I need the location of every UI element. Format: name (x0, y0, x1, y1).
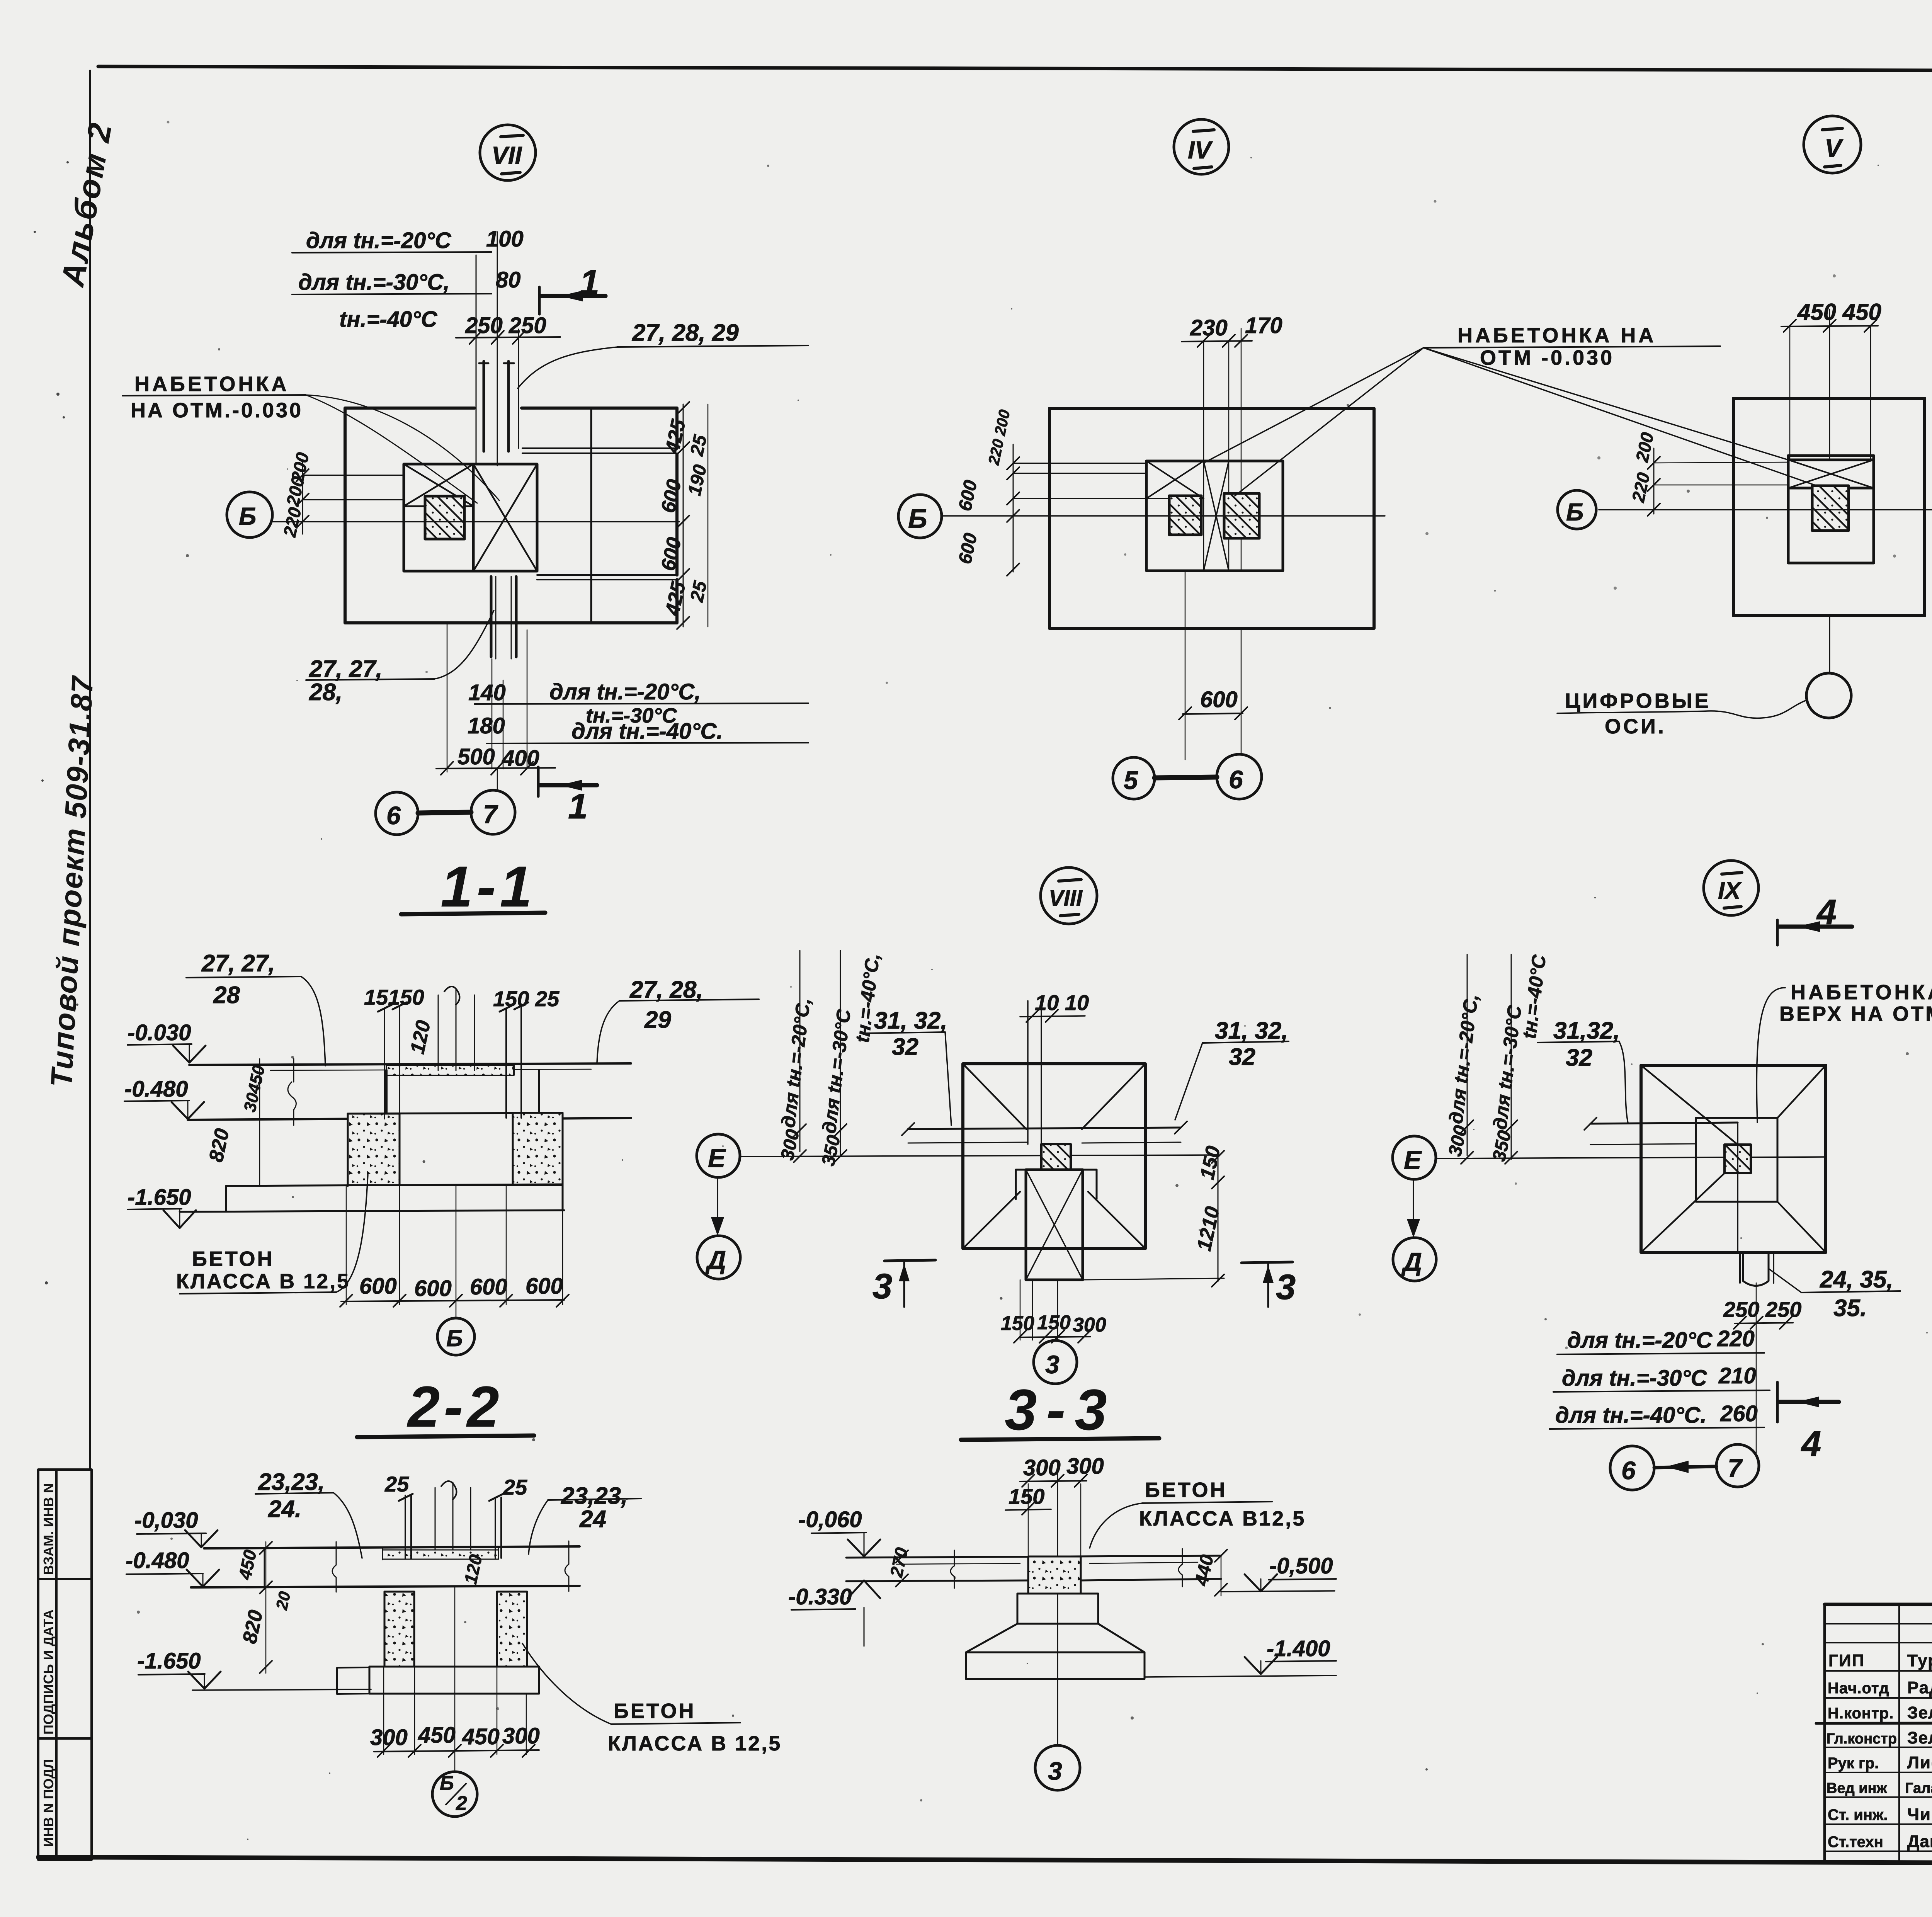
svg-text:Б: Б (239, 502, 256, 530)
signature column verticals (1899, 1604, 1932, 1863)
svg-text:-0.030: -0.030 (128, 1020, 191, 1045)
extension verticals from dims (1028, 1461, 1081, 1556)
pit between piers (414, 1666, 497, 1667)
left footing step outline (385, 1070, 388, 1119)
svg-text:300: 300 (1073, 1314, 1106, 1336)
corner diagonals (1641, 1065, 1826, 1252)
centre column with X brace (473, 464, 537, 571)
anchor bolt pocket (bottom) (491, 577, 516, 657)
anchor bolts above beam left pair (384, 1007, 400, 1119)
section mark 4 (top) (1776, 920, 1779, 945)
centre recess with topping (383, 1546, 498, 1560)
svg-text:-0,030: -0,030 (134, 1508, 198, 1533)
axis bubble Д with arrow (697, 1236, 740, 1279)
box divider vertical (55, 1470, 58, 1860)
svg-text:150: 150 (1001, 1312, 1034, 1335)
svg-text:tн.=-40°С: tн.=-40°С (339, 307, 437, 332)
extension verticals (384, 1587, 526, 1772)
svg-text:Д: Д (705, 1245, 726, 1275)
top beam end bar (1788, 459, 1874, 461)
left border line (89, 71, 91, 1470)
column step outline (1016, 1170, 1097, 1199)
svg-text:210: 210 (1718, 1363, 1756, 1388)
axis bubble 5 (1113, 757, 1155, 799)
svg-text:Нач.отд: Нач.отд (1828, 1680, 1889, 1697)
hatched column pad (1812, 486, 1849, 531)
beam left end vertical (264, 1548, 265, 1587)
svg-text:-0,060: -0,060 (798, 1507, 862, 1532)
svg-text:Чирва: Чирва (1907, 1805, 1932, 1824)
svg-text:31, 32,: 31, 32, (874, 1007, 947, 1034)
cross brace left bay (1146, 461, 1204, 498)
axis bubble 6 (1217, 754, 1262, 799)
svg-text:Зеленский: Зеленский (1907, 1703, 1932, 1722)
svg-text:IX: IX (1718, 878, 1742, 904)
svg-text:для tн.=-30°С: для tн.=-30°С (1562, 1366, 1708, 1391)
axis line Б (942, 515, 1385, 517)
svg-text:для tн.=-20°С,: для tн.=-20°С, (549, 679, 701, 704)
svg-text:6: 6 (386, 801, 401, 830)
line from column bottom to dim (1083, 1278, 1224, 1280)
svg-text:3-3: 3-3 (1005, 1377, 1116, 1442)
svg-text:7: 7 (1728, 1454, 1743, 1482)
svg-text:-0.330: -0.330 (788, 1584, 852, 1609)
left concrete pier (speckled) (348, 1114, 400, 1185)
svg-text:-1.650: -1.650 (128, 1185, 191, 1210)
svg-text:НАБЕТОНКА НА: НАБЕТОНКА НА (1458, 324, 1656, 347)
svg-text:32: 32 (1229, 1044, 1255, 1070)
right step double lines lower (537, 575, 677, 580)
svg-text:БЕТОН: БЕТОН (1145, 1478, 1227, 1502)
beam bottom line (191, 1586, 580, 1587)
svg-text:Данилова: Данилова (1907, 1832, 1932, 1851)
axis connector with arrow (1654, 1466, 1716, 1468)
plan outer square (963, 1064, 1145, 1249)
svg-text:ГИП: ГИП (1828, 1651, 1865, 1670)
thin lines from dim to block (1654, 462, 1788, 485)
svg-text:4: 4 (1801, 1424, 1821, 1464)
svg-text:Н.контр.: Н.контр. (1828, 1705, 1894, 1722)
svg-text:для tн.=-20°С: для tн.=-20°С (306, 228, 452, 253)
svg-text:Туринский: Туринский (1907, 1651, 1932, 1670)
thicker divider under Н.контр row (1816, 1723, 1932, 1723)
svg-text:для tн.=-20°С: для tн.=-20°С (1567, 1328, 1713, 1353)
svg-text:450: 450 (462, 1724, 500, 1749)
svg-text:Зеленский: Зеленский (1907, 1728, 1932, 1747)
axis vertical line (1057, 1594, 1058, 1746)
detail bubble IX (1704, 861, 1759, 915)
axis line E (741, 1155, 1217, 1157)
speckled column block (1028, 1556, 1081, 1594)
svg-text:600: 600 (359, 1274, 397, 1299)
svg-text:Б: Б (1566, 498, 1583, 526)
axis bubble Б/2 (432, 1772, 477, 1817)
svg-text:32: 32 (892, 1034, 918, 1060)
axis bubble Е (697, 1134, 740, 1177)
svg-text:Лисунов: Лисунов (1907, 1753, 1932, 1772)
svg-text:25: 25 (503, 1475, 527, 1499)
svg-text:7: 7 (483, 800, 498, 828)
level line -1.650 (192, 1689, 371, 1690)
svg-text:Д: Д (1401, 1247, 1422, 1277)
svg-text:Б: Б (908, 503, 927, 534)
base slab (966, 1652, 1145, 1679)
plan outer slab rectangle (345, 408, 677, 623)
axis bubble Б (898, 495, 942, 538)
plan outer square (1641, 1065, 1826, 1252)
beam inner lines (896, 1562, 1198, 1564)
pit between piers (400, 1184, 513, 1186)
svg-text:23,23,: 23,23, (258, 1469, 325, 1495)
centre recess topping strip (386, 1065, 514, 1075)
extension verticals from dims to plan (1203, 342, 1204, 571)
centre hatched pad (1041, 1144, 1071, 1170)
svg-text:Б: Б (446, 1325, 463, 1351)
right step double lines upper (522, 448, 677, 453)
svg-text:600: 600 (526, 1274, 563, 1299)
svg-text:КЛАССА В12,5: КЛАССА В12,5 (1139, 1507, 1306, 1530)
svg-text:100: 100 (486, 226, 524, 252)
right concrete pier (speckled) (497, 1592, 527, 1667)
extension verticals (1020, 1280, 1058, 1340)
bottom slab of footing (226, 1184, 563, 1211)
axis bubble 7 (1716, 1444, 1759, 1487)
svg-text:31,32,: 31,32, (1553, 1017, 1620, 1044)
svg-text:27, 28, 29: 27, 28, 29 (632, 320, 739, 346)
svg-text:1-1: 1-1 (440, 854, 536, 919)
svg-text:150: 150 (1009, 1484, 1044, 1509)
beam top surface line (189, 1063, 631, 1065)
hatched pad left (1169, 496, 1201, 535)
inner foundation rectangle (1788, 456, 1874, 563)
svg-text:1: 1 (580, 263, 599, 302)
axis bubble Д with arrow (1393, 1238, 1436, 1281)
axis bubble Б (437, 1318, 474, 1355)
svg-text:VII: VII (492, 141, 522, 169)
beam top line (846, 1556, 1221, 1558)
inner step outline (1696, 1118, 1777, 1202)
svg-text:24, 35,: 24, 35, (1820, 1266, 1893, 1293)
break marks on beam (332, 1542, 336, 1592)
plan outer slab rectangle (1049, 408, 1374, 628)
svg-text:170: 170 (1245, 313, 1282, 338)
svg-text:15150: 15150 (364, 985, 424, 1009)
svg-text:450: 450 (418, 1723, 456, 1748)
box divider row 2 (38, 1737, 92, 1740)
beam bottom left ledge (188, 1119, 386, 1120)
svg-text:для tн.=-40°С.: для tн.=-40°С. (1555, 1403, 1707, 1428)
svg-text:300: 300 (1066, 1454, 1104, 1479)
svg-text:Гл.констр: Гл.констр (1827, 1731, 1897, 1747)
svg-text:24.: 24. (268, 1496, 301, 1522)
svg-text:КЛАССА В 12,5: КЛАССА В 12,5 (608, 1732, 782, 1755)
left inner block (404, 464, 473, 571)
right concrete pier (speckled) (513, 1113, 563, 1185)
plan outer slab rectangle (1733, 398, 1925, 616)
bottom border line (38, 1857, 1932, 1865)
section mark 1 (bottom) (537, 767, 540, 796)
column below with X (1026, 1170, 1083, 1280)
svg-text:10 10: 10 10 (1035, 990, 1089, 1015)
hatched column pad (425, 496, 464, 539)
vertical centre line down (1756, 1283, 1757, 1453)
axis bubble Б (227, 492, 272, 538)
detail bubble VII (480, 125, 536, 180)
hatched pad (1725, 1145, 1751, 1173)
column extension below with bolts (1740, 1252, 1774, 1283)
svg-text:31, 32,: 31, 32, (1215, 1017, 1288, 1044)
svg-text:БЕТОН: БЕТОН (192, 1247, 274, 1271)
numeric axis empty bubble (1806, 673, 1851, 718)
svg-text:V: V (1825, 134, 1844, 162)
bottom dim line (436, 768, 555, 769)
title block outline (1825, 1603, 1932, 1606)
anchor bolt lines from top (1028, 999, 1041, 1144)
level line -1.400 (1145, 1675, 1336, 1677)
svg-text:ОСИ.: ОСИ. (1605, 715, 1666, 738)
svg-text:1: 1 (568, 787, 588, 826)
svg-text:6: 6 (1229, 765, 1243, 794)
box divider row 1 (38, 1578, 92, 1580)
svg-text:250 250: 250 250 (465, 313, 546, 338)
corner diagonals (963, 1064, 1145, 1249)
beam bottom right ledge (539, 1118, 631, 1119)
beam lines from axis Б (303, 475, 404, 500)
svg-text:ВЕРХ НА ОТМ.-0.020: ВЕРХ НА ОТМ.-0.020 (1779, 1002, 1932, 1026)
axis line Е (1435, 1157, 1826, 1158)
svg-text:140: 140 (468, 680, 506, 705)
svg-text:600: 600 (414, 1276, 452, 1301)
svg-text:23,23,: 23,23, (561, 1483, 628, 1509)
level line -0.500 (1221, 1591, 1335, 1592)
note leaders to IV and V (1205, 348, 1423, 462)
svg-text:2: 2 (456, 1792, 467, 1815)
svg-text:4: 4 (1816, 893, 1837, 932)
break marks (951, 1550, 954, 1588)
detail bubble V (1804, 116, 1861, 173)
svg-text:27, 27,: 27, 27, (201, 950, 275, 977)
footing top line (348, 1113, 563, 1114)
svg-text:220: 220 (1717, 1326, 1755, 1351)
svg-text:3: 3 (1276, 1267, 1296, 1307)
svg-text:Б: Б (440, 1772, 454, 1795)
svg-text:600: 600 (1200, 687, 1238, 712)
axis bubble 7 (471, 790, 515, 834)
axis bubble Б (1558, 490, 1596, 529)
beam bottom line (846, 1579, 1221, 1581)
svg-text:32: 32 (1566, 1044, 1592, 1071)
svg-text:для tн.=-30°С,: для tн.=-30°С, (298, 270, 450, 295)
hatched pad right (1224, 493, 1259, 538)
svg-text:260: 260 (1720, 1401, 1758, 1426)
svg-text:24: 24 (579, 1506, 606, 1533)
column outline right (1777, 1118, 1779, 1202)
svg-text:20: 20 (272, 1590, 294, 1611)
top border line (98, 66, 1932, 72)
svg-text:6: 6 (1621, 1456, 1636, 1485)
inner slab edge line (590, 408, 592, 623)
axis bubble 3 (1035, 1745, 1080, 1790)
svg-text:для tн.=-40°С.: для tн.=-40°С. (571, 719, 723, 744)
svg-text:400: 400 (502, 746, 539, 771)
axis connector (418, 812, 471, 813)
svg-text:ЦИФРОВЫЕ: ЦИФРОВЫЕ (1565, 689, 1711, 713)
axis connector (1155, 777, 1217, 778)
cross brace on left block (404, 464, 473, 506)
axis line Б (1599, 509, 1932, 510)
anchor bolts (405, 1495, 411, 1559)
svg-text:НАБЕТОНКА: НАБЕТОНКА (134, 373, 289, 396)
right dim line with ticks (683, 404, 684, 627)
svg-text:25: 25 (384, 1472, 409, 1496)
column centre lines (438, 989, 474, 1070)
frame boxes column (38, 1470, 92, 1860)
svg-text:-1.650: -1.650 (137, 1648, 201, 1674)
axis bubble 6 (1610, 1446, 1654, 1490)
beam top line (204, 1546, 580, 1548)
svg-text:ВЗАМ. ИНВ N: ВЗАМ. ИНВ N (41, 1483, 56, 1575)
svg-text:300: 300 (1023, 1455, 1061, 1480)
svg-text:VIII: VIII (1049, 886, 1083, 911)
svg-text:450 450: 450 450 (1797, 299, 1881, 325)
section mark 3 left (884, 1260, 935, 1261)
svg-text:НАБЕТОНКА: НАБЕТОНКА (1791, 981, 1932, 1004)
svg-text:ПОДПИСЬ И ДАТА: ПОДПИСЬ И ДАТА (41, 1609, 56, 1735)
svg-text:Радько: Радько (1907, 1678, 1932, 1697)
svg-text:IV: IV (1188, 136, 1213, 164)
inner foundation rectangle (1146, 461, 1283, 571)
svg-text:БЕТОН: БЕТОН (614, 1699, 696, 1723)
svg-text:29: 29 (644, 1007, 671, 1033)
centre strip X (1204, 461, 1229, 571)
column centre lines (435, 1482, 471, 1550)
svg-text:Е: Е (708, 1143, 726, 1173)
svg-text:3: 3 (872, 1267, 892, 1306)
signature row lines (1825, 1624, 1932, 1851)
svg-text:Е: Е (1404, 1145, 1422, 1175)
svg-text:150: 150 (1037, 1311, 1071, 1334)
extension verticals to dim (1185, 571, 1186, 760)
svg-text:Галактионова: Галактионова (1905, 1780, 1932, 1796)
svg-text:ОТМ -0.030: ОТМ -0.030 (1480, 346, 1614, 369)
beam edge lines from top (476, 255, 477, 464)
section mark 3 right (1242, 1262, 1293, 1263)
beam from left (1590, 1123, 1738, 1124)
svg-text:150 25: 150 25 (493, 987, 560, 1011)
section mark 4 (bottom) (1776, 1382, 1779, 1422)
axis bubble 6 (376, 792, 418, 835)
left concrete pier (speckled) (384, 1592, 414, 1667)
svg-text:Рук гр.: Рук гр. (1828, 1755, 1879, 1772)
svg-text:28,: 28, (309, 679, 342, 706)
beam through plan (908, 1128, 1181, 1129)
svg-text:3: 3 (1048, 1757, 1062, 1785)
svg-text:600: 600 (470, 1274, 507, 1300)
svg-text:27, 28,: 27, 28, (629, 976, 703, 1003)
svg-text:180: 180 (468, 713, 505, 738)
svg-text:Вед инж: Вед инж (1827, 1780, 1888, 1796)
detail bubble IV (1174, 119, 1229, 174)
svg-text:Ст. инж.: Ст. инж. (1828, 1806, 1888, 1823)
extension verticals (447, 623, 448, 772)
extension verticals for 600 dims (346, 1186, 347, 1305)
svg-text:Ст.техн: Ст.техн (1828, 1834, 1883, 1851)
svg-text:НА ОТМ.-0.030: НА ОТМ.-0.030 (131, 399, 303, 422)
svg-text:ИНВ N ПОДЛ: ИНВ N ПОДЛ (41, 1759, 56, 1847)
anchor bolt pocket (top) (484, 361, 509, 451)
svg-text:-0,500: -0,500 (1269, 1553, 1333, 1579)
beam lines from axis Б (1013, 463, 1146, 498)
axis bubble Е (1393, 1136, 1436, 1179)
svg-text:-0.480: -0.480 (126, 1548, 189, 1573)
svg-text:28: 28 (213, 982, 240, 1009)
trapezoid haunch (966, 1624, 1145, 1652)
cross brace (1788, 460, 1874, 488)
beam inner thin line (270, 1069, 591, 1070)
svg-text:500: 500 (457, 744, 495, 769)
svg-text:2-2: 2-2 (406, 1374, 503, 1439)
extension verticals to plan (1789, 327, 1791, 460)
svg-text:-0.480: -0.480 (124, 1077, 188, 1102)
tick marks on rotated dim lines (794, 1124, 847, 1162)
section mark 1 (top) (538, 287, 541, 314)
svg-text:27, 27,: 27, 27, (309, 656, 383, 682)
anchor bolts above beam right pair (506, 1007, 521, 1118)
pedestal (1017, 1594, 1098, 1624)
vertical line to numeric axis circle (1829, 616, 1830, 673)
axis bubble 3 (1034, 1340, 1077, 1384)
axis line Б (272, 521, 679, 522)
svg-text:80: 80 (496, 267, 521, 293)
svg-text:35.: 35. (1833, 1295, 1867, 1322)
svg-text:5: 5 (1124, 766, 1138, 794)
detail bubble VIII (1041, 867, 1097, 924)
break marks on beam (288, 1059, 296, 1125)
svg-text:3: 3 (1045, 1350, 1060, 1379)
svg-text:КЛАССА В 12,5: КЛАССА В 12,5 (176, 1270, 350, 1293)
bottom slab (369, 1667, 539, 1694)
